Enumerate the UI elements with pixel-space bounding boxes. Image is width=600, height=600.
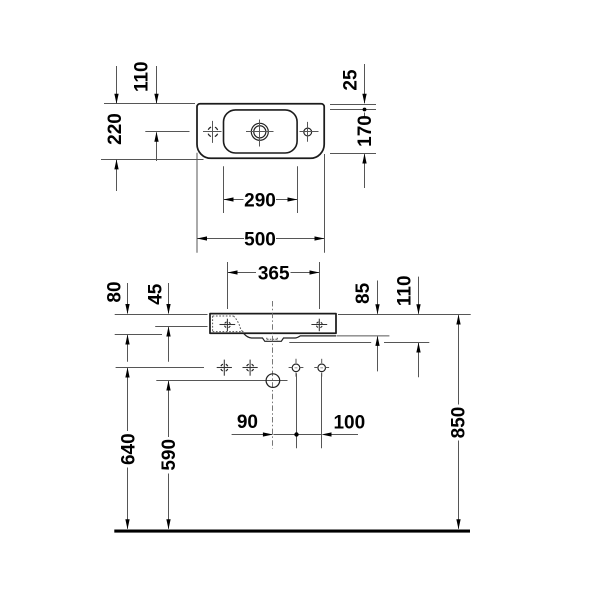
svg-text:290: 290 (244, 190, 276, 211)
svg-text:220: 220 (105, 113, 126, 145)
svg-text:100: 100 (333, 413, 365, 434)
svg-text:500: 500 (244, 229, 276, 250)
svg-text:640: 640 (119, 433, 140, 465)
svg-text:25: 25 (341, 69, 362, 91)
svg-text:85: 85 (353, 282, 374, 304)
svg-text:365: 365 (258, 263, 290, 284)
svg-text:590: 590 (159, 439, 180, 471)
svg-text:110: 110 (131, 61, 152, 92)
svg-text:90: 90 (237, 412, 258, 433)
svg-text:850: 850 (449, 407, 470, 439)
svg-text:110: 110 (395, 275, 416, 306)
svg-text:45: 45 (145, 283, 166, 305)
svg-text:170: 170 (355, 115, 376, 147)
svg-text:80: 80 (104, 281, 125, 302)
